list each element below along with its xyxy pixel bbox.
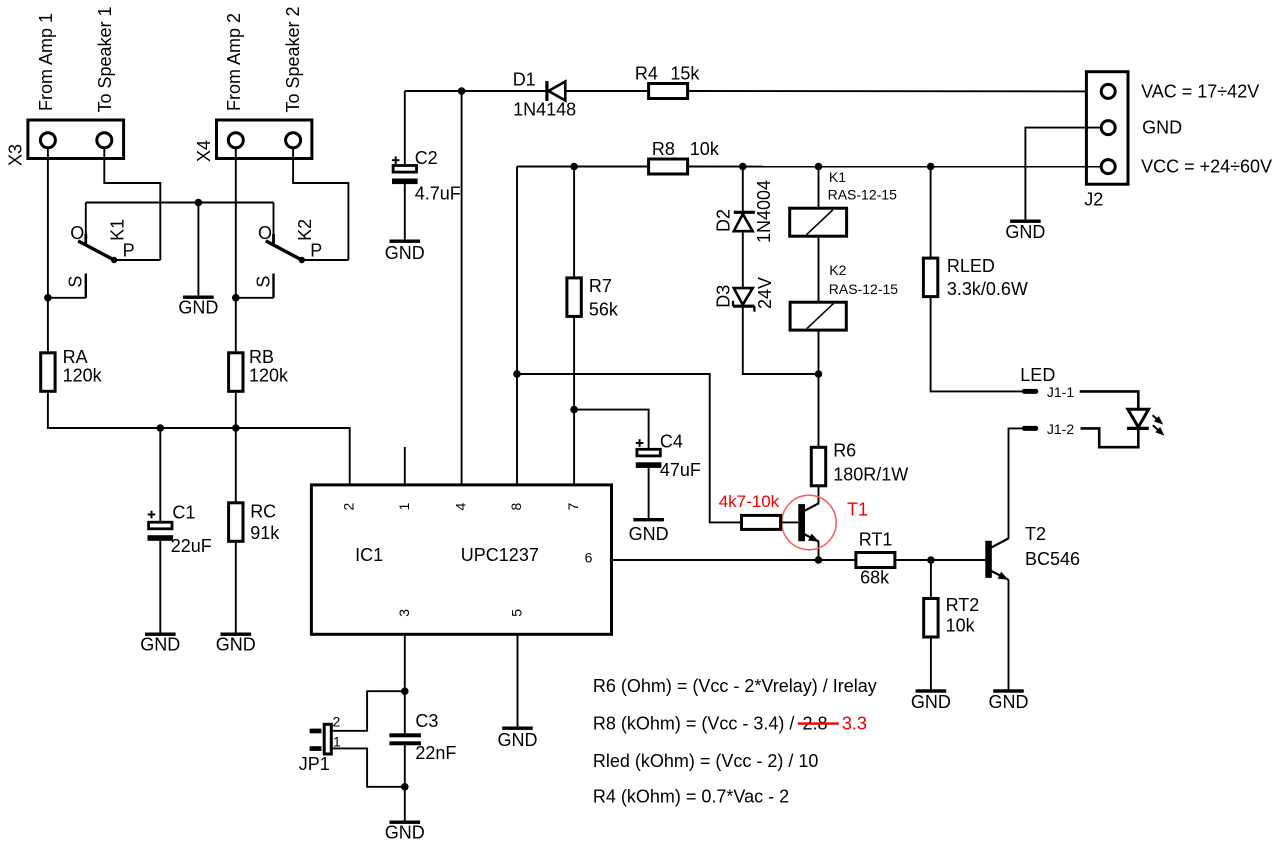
relay K1 coil — [790, 208, 847, 236]
contact K1 O terminal — [85, 203, 87, 241]
svg-text:P: P — [310, 240, 322, 260]
wire To Speaker 2 to K2 pole — [293, 148, 348, 260]
svg-text:IC1: IC1 — [355, 545, 383, 565]
svg-text:RT2: RT2 — [946, 595, 980, 615]
junction pin8 tap — [513, 370, 521, 378]
wire base resistor to T1 — [781, 521, 799, 523]
svg-text:UPC1237: UPC1237 — [461, 545, 539, 565]
svg-text:K1: K1 — [107, 219, 127, 241]
jumper JP1 — [324, 724, 331, 754]
svg-text:O: O — [70, 223, 84, 243]
junction K2 P — [299, 257, 305, 263]
wire C4 to ground — [648, 468, 650, 518]
wire IC pin 1 stub — [404, 447, 406, 486]
LED D4 — [1128, 409, 1149, 427]
wire RLED top — [930, 167, 932, 259]
wire K2 S branch — [236, 297, 274, 299]
ground GND (C2) — [390, 240, 421, 243]
svg-text:4: 4 — [453, 503, 469, 511]
wire T2 collector to J1-2 — [1009, 428, 1024, 538]
connector J2 — [1086, 72, 1128, 185]
wire pin8 tap to base resistor — [517, 374, 742, 522]
ground GND (J2) — [1010, 220, 1041, 223]
wire RLED to J1-1 — [931, 297, 1024, 392]
svg-text:RLED: RLED — [947, 256, 995, 276]
svg-text:R6: R6 — [833, 440, 856, 460]
resistor RC — [229, 503, 243, 542]
capacitor C4 — [637, 449, 660, 456]
svg-text:R4: R4 — [635, 63, 658, 83]
wire C3 to ground — [404, 745, 406, 821]
ground GND (T2) — [993, 689, 1024, 692]
svg-text:2: 2 — [341, 503, 357, 511]
capacitor C3 — [389, 733, 421, 737]
diode D1 — [545, 81, 548, 101]
svg-text:1: 1 — [333, 734, 341, 750]
svg-text:RA: RA — [63, 347, 88, 367]
wire C4 branch — [574, 410, 649, 450]
svg-text:O: O — [258, 223, 272, 243]
wire D3 to relay bottom — [743, 306, 819, 374]
svg-text:X4: X4 — [194, 140, 214, 162]
svg-text:JP1: JP1 — [299, 754, 330, 774]
wire J1-1 to LED anode — [1080, 391, 1139, 410]
svg-text:22uF: 22uF — [171, 536, 212, 556]
resistor R7 — [567, 278, 581, 317]
svg-text:120k: 120k — [249, 365, 289, 385]
wire K1 P — [114, 259, 160, 261]
wire ground stem — [197, 203, 199, 296]
wire RT2 top — [930, 560, 932, 599]
svg-text:GND: GND — [178, 298, 218, 318]
resistor RLED — [923, 258, 937, 297]
svg-text:C2: C2 — [415, 148, 438, 168]
svg-text:R8: R8 — [652, 139, 675, 159]
wire J1-2 to LED cathode — [1081, 428, 1139, 447]
svg-text:47uF: 47uF — [660, 460, 701, 480]
junction RT2 top — [927, 556, 935, 564]
svg-text:To Speaker 2: To Speaker 2 — [283, 6, 303, 112]
resistor R4 — [649, 84, 688, 99]
wire D2 to D3 — [742, 231, 744, 288]
svg-text:X3: X3 — [6, 144, 26, 166]
transistor Q2 T2 — [985, 541, 992, 578]
svg-text:S: S — [253, 276, 273, 288]
resistor R6 — [811, 447, 825, 486]
wire RT1 to T2 base — [895, 559, 985, 561]
svg-text:56k: 56k — [589, 299, 619, 319]
svg-text:K2: K2 — [829, 262, 846, 278]
junction K1 S — [44, 294, 52, 302]
svg-text:T1: T1 — [847, 499, 868, 519]
ground GND (C3) — [390, 821, 421, 824]
junction K1 P — [111, 257, 117, 263]
ground GND (pin5) — [502, 727, 533, 730]
svg-text:3.3k/0.6W: 3.3k/0.6W — [947, 279, 1028, 299]
svg-text:68k: 68k — [860, 568, 890, 588]
svg-text:GND: GND — [1142, 117, 1182, 137]
svg-text:RAS-12-15: RAS-12-15 — [829, 281, 898, 297]
contact K2 arm — [266, 241, 302, 260]
wire K1 coil top — [818, 167, 820, 209]
svg-text:R8 (kOhm) = (Vcc - 3.4) /: R8 (kOhm) = (Vcc - 3.4) / — [593, 713, 795, 733]
wire JP1 pin2 — [331, 691, 405, 731]
diode D3 — [734, 288, 753, 305]
wire top rail VAC — [405, 90, 546, 92]
svg-text:D1: D1 — [513, 69, 536, 89]
junction IC pin 4 — [458, 87, 466, 95]
contact K1 arm — [78, 241, 114, 260]
svg-text:P: P — [123, 240, 135, 260]
resistor R8 — [649, 159, 688, 174]
svg-text:1: 1 — [396, 503, 412, 511]
ground GND (contacts) — [183, 296, 214, 299]
svg-text:From Amp 2: From Amp 2 — [224, 13, 244, 111]
svg-text:RT1: RT1 — [859, 529, 893, 549]
svg-text:J1-1: J1-1 — [1047, 384, 1074, 400]
wire IC pin 6 — [612, 559, 856, 561]
wire C2 to top rail — [404, 91, 406, 166]
svg-text:RC: RC — [250, 502, 276, 522]
svg-text:1N4004: 1N4004 — [754, 180, 774, 243]
ground GND (C1) — [145, 633, 176, 636]
resistor 4k7-10k — [742, 515, 781, 529]
junction JP1 pin1 tap — [401, 783, 409, 791]
svg-text:2: 2 — [333, 714, 341, 730]
junction T1 emitter — [815, 556, 823, 564]
svg-text:J2: J2 — [1084, 189, 1103, 209]
svg-text:RB: RB — [249, 347, 274, 367]
wire C1 to ground — [159, 541, 161, 633]
svg-text:C3: C3 — [415, 711, 438, 731]
svg-text:R4 (kOhm) = 0.7*Vac - 2: R4 (kOhm) = 0.7*Vac - 2 — [593, 787, 789, 807]
wire IC pin 4 — [461, 91, 463, 486]
wire J2 GND pin — [1025, 128, 1101, 220]
wire From Amp 2 down to RB — [235, 148, 237, 353]
svg-text:T2: T2 — [1025, 524, 1046, 544]
svg-text:GND: GND — [216, 635, 256, 655]
transistor Q1 T1 — [798, 504, 805, 541]
svg-text:GND: GND — [989, 692, 1029, 712]
svg-text:3: 3 — [396, 609, 412, 617]
junction C4 tap — [570, 406, 578, 414]
resistor RT2 — [924, 599, 938, 638]
junction RC tap — [232, 424, 240, 432]
ground GND (RT2) — [916, 689, 947, 692]
junction relay bottom — [815, 370, 823, 378]
ground GND (C4) — [633, 518, 664, 521]
junction C1 tap — [157, 424, 165, 432]
svg-text:D3: D3 — [714, 285, 734, 308]
svg-text:S: S — [66, 276, 86, 288]
svg-text:15k: 15k — [670, 63, 700, 83]
svg-text:GND: GND — [385, 243, 425, 263]
svg-text:5: 5 — [509, 609, 525, 617]
svg-text:GND: GND — [385, 823, 425, 843]
wire R6 to T1 collector — [818, 486, 820, 504]
svg-text:D2: D2 — [714, 209, 734, 232]
junction R7 top — [570, 163, 578, 171]
op-amp U1 IC1 UPC1237 box — [311, 485, 611, 634]
wire D2 top — [742, 167, 744, 213]
wire RC to ground — [235, 541, 237, 633]
wire IC pin 3 — [404, 634, 406, 733]
svg-text:To Speaker 1: To Speaker 1 — [95, 6, 115, 112]
wire K2 to R6 — [818, 330, 820, 448]
wire RT2 to ground — [930, 637, 932, 690]
junction JP1 pin2 tap — [401, 687, 409, 695]
wire IC pin 8 — [516, 167, 518, 487]
junction K1 coil top — [815, 163, 823, 171]
pin J1-1 — [1024, 389, 1036, 394]
wire contact ground bus — [86, 202, 274, 204]
svg-text:From Amp 1: From Amp 1 — [36, 13, 56, 111]
wire R7 to IC pin 7 — [573, 316, 575, 486]
wire sense bus to IC pin 2 — [48, 391, 350, 486]
svg-text:8: 8 — [508, 503, 524, 511]
wire VCC rail — [517, 166, 649, 168]
svg-text:GND: GND — [498, 730, 538, 750]
svg-text:K2: K2 — [295, 219, 315, 241]
wire C1 top — [159, 428, 161, 522]
resistor RB — [229, 353, 243, 392]
svg-text:VCC = +24÷60V: VCC = +24÷60V — [1141, 156, 1272, 176]
svg-text:22nF: 22nF — [415, 743, 456, 763]
wire R7 top — [573, 167, 575, 279]
diode D2 — [734, 211, 755, 214]
wire JP1 pin1 — [331, 748, 405, 786]
relay K2 coil — [790, 302, 846, 330]
svg-text:6: 6 — [585, 550, 593, 566]
svg-text:10k: 10k — [690, 139, 720, 159]
wire K1 S branch — [48, 297, 86, 299]
svg-text:10k: 10k — [946, 615, 976, 635]
svg-text:LED: LED — [1020, 365, 1055, 385]
svg-text:VAC = 17÷42V: VAC = 17÷42V — [1141, 81, 1259, 101]
svg-text:C4: C4 — [660, 432, 683, 452]
svg-text:3.3: 3.3 — [842, 713, 867, 733]
pin J1-2 — [1024, 426, 1036, 431]
contact K2 O terminal — [273, 203, 275, 241]
junction ground bus — [195, 199, 203, 207]
wire C2 to ground — [404, 184, 406, 240]
junction D2 top — [739, 163, 747, 171]
formula R8 strike — [798, 722, 839, 724]
svg-text:4k7-10k: 4k7-10k — [719, 492, 780, 511]
svg-text:GND: GND — [140, 635, 180, 655]
resistor RA — [41, 353, 55, 392]
wire RB to RC — [235, 391, 237, 503]
connector X4 — [217, 120, 312, 159]
capacitor C2 — [393, 166, 416, 173]
junction K2 S — [232, 294, 240, 302]
wire IC pin 5 — [517, 634, 519, 727]
svg-text:J1-2: J1-2 — [1047, 421, 1074, 437]
svg-text:GND: GND — [911, 692, 951, 712]
svg-text:4.7uF: 4.7uF — [415, 183, 461, 203]
resistor RT1 — [856, 553, 895, 568]
capacitor C1 — [149, 522, 172, 529]
svg-text:7: 7 — [565, 503, 581, 511]
connector X3 — [28, 120, 124, 159]
svg-text:Rled (kOhm) = (Vcc - 2) / 10: Rled (kOhm) = (Vcc - 2) / 10 — [593, 751, 819, 771]
wire K1 to K2 — [818, 236, 820, 302]
wire K2 P — [302, 259, 349, 261]
svg-text:180R/1W: 180R/1W — [833, 464, 908, 484]
svg-text:GND: GND — [1005, 222, 1045, 242]
svg-text:120k: 120k — [63, 365, 103, 385]
svg-text:24V: 24V — [755, 277, 775, 309]
svg-text:K1: K1 — [829, 169, 846, 185]
svg-text:1N4148: 1N4148 — [513, 99, 576, 119]
ground GND (RC) — [221, 633, 252, 636]
LED arrow 2 — [1153, 425, 1159, 431]
wire To Speaker 1 to K1 pole — [104, 148, 160, 260]
svg-text:BC546: BC546 — [1025, 549, 1080, 569]
svg-text:RAS-12-15: RAS-12-15 — [828, 187, 897, 203]
svg-text:C1: C1 — [172, 502, 195, 522]
svg-text:R7: R7 — [589, 276, 612, 296]
svg-text:91k: 91k — [250, 523, 280, 543]
junction RLED top — [927, 163, 935, 171]
wire From Amp 1 down to RA — [47, 148, 49, 353]
svg-text:GND: GND — [629, 524, 669, 544]
svg-text:R6 (Ohm) = (Vcc - 2*Vrelay) /: R6 (Ohm) = (Vcc - 2*Vrelay) / Irelay — [593, 676, 877, 696]
LED arrow 1 — [1153, 415, 1159, 420]
T1 highlight circle — [782, 495, 836, 549]
